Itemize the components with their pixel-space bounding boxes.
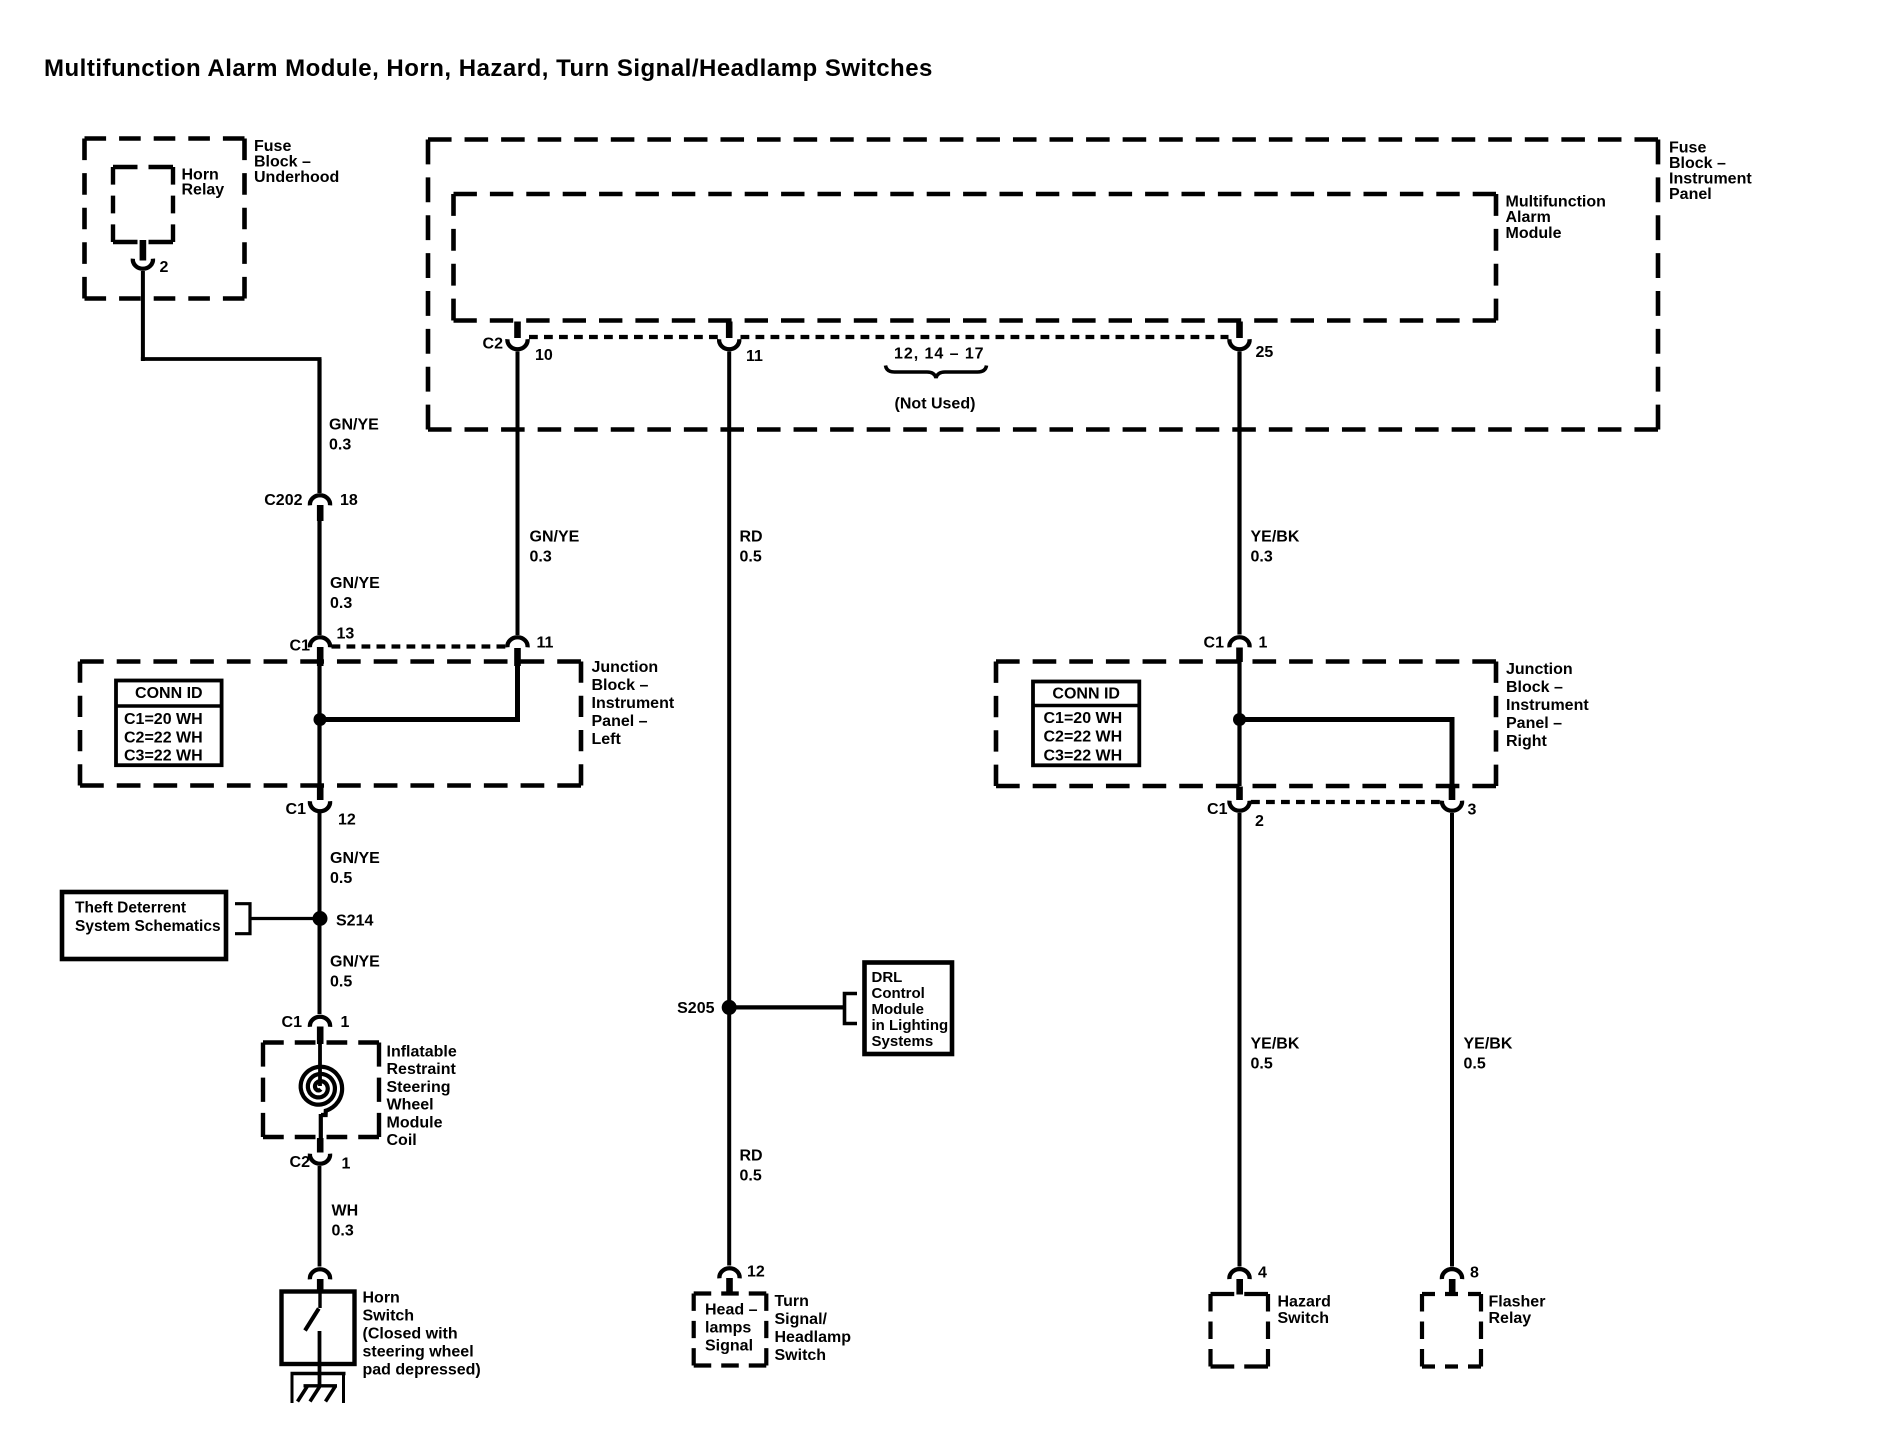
wire horn relay to C202	[141, 271, 145, 361]
svg-text:10: 10	[535, 347, 553, 364]
svg-text:Head –: Head –	[705, 1302, 758, 1319]
svg-text:0.3: 0.3	[1251, 549, 1273, 566]
horn switch blade	[318, 1292, 321, 1308]
svg-text:WH: WH	[332, 1203, 359, 1220]
CONN ID table left	[116, 681, 222, 766]
svg-text:8: 8	[1470, 1265, 1479, 1282]
svg-text:Module: Module	[387, 1114, 443, 1131]
svg-text:C1=20 WH: C1=20 WH	[124, 711, 203, 728]
junction block - instrument panel - left box	[80, 659, 581, 664]
wire C2-1 to horn switch, label WH 0.3	[318, 1166, 322, 1267]
svg-text:Module: Module	[872, 1001, 925, 1018]
svg-text:Horn: Horn	[363, 1290, 400, 1307]
coil spiral	[301, 1067, 342, 1115]
svg-text:C1: C1	[1204, 635, 1225, 652]
svg-text:11: 11	[746, 348, 763, 365]
svg-text:RD: RD	[740, 529, 763, 546]
svg-text:GN/YE: GN/YE	[330, 575, 380, 592]
wire C1-2 down to hazard switch, label YE/BK 0.5	[1238, 813, 1242, 1267]
svg-text:Control: Control	[872, 985, 925, 1002]
svg-text:0.5: 0.5	[740, 549, 762, 566]
svg-text:Systems: Systems	[872, 1033, 934, 1050]
wire module 11 down to S205, label RD 0.5	[727, 352, 731, 1015]
dotted link C1-2 to connector 3	[1251, 800, 1441, 804]
horn switch connector	[310, 1269, 330, 1279]
svg-text:GN/YE: GN/YE	[330, 850, 380, 867]
svg-text:C1: C1	[282, 1014, 303, 1031]
svg-text:Instrument: Instrument	[1669, 171, 1752, 188]
svg-text:0.5: 0.5	[1251, 1056, 1273, 1073]
svg-text:Multifunction Alarm Module, Ho: Multifunction Alarm Module, Horn, Hazard…	[44, 55, 933, 82]
wire 3 down to flasher relay, label YE/BK 0.5	[1450, 813, 1454, 1267]
svg-text:Module: Module	[1506, 225, 1562, 242]
svg-text:Steering: Steering	[387, 1079, 451, 1096]
svg-text:Flasher: Flasher	[1489, 1294, 1546, 1311]
svg-text:Turn: Turn	[775, 1293, 809, 1310]
svg-text:Multifunction: Multifunction	[1506, 194, 1606, 211]
flasher relay box	[1422, 1292, 1481, 1296]
svg-text:YE/BK: YE/BK	[1251, 529, 1300, 546]
svg-text:13: 13	[337, 626, 355, 643]
svg-text:Theft Deterrent: Theft Deterrent	[75, 900, 186, 917]
module connector pin 11	[726, 322, 733, 339]
dotted link C1-13 to junction connector 11	[332, 644, 507, 648]
svg-text:Headlamp: Headlamp	[775, 1329, 852, 1346]
svg-text:Right: Right	[1506, 733, 1548, 750]
svg-text:Alarm: Alarm	[1506, 209, 1551, 226]
head-lamps signal box	[694, 1291, 767, 1295]
svg-text:Signal: Signal	[705, 1338, 753, 1355]
svg-text:S205: S205	[677, 1000, 714, 1017]
svg-text:C202: C202	[264, 492, 302, 509]
svg-text:1: 1	[342, 1156, 351, 1173]
connector C2 pin 1	[317, 1138, 324, 1153]
svg-text:System Schematics: System Schematics	[75, 918, 221, 935]
connector C1 pin 2	[1236, 787, 1243, 801]
theft deterrent reference box	[62, 892, 226, 959]
svg-text:lamps: lamps	[705, 1320, 751, 1337]
svg-text:Block –: Block –	[1506, 679, 1563, 696]
svg-text:CONN ID: CONN ID	[1052, 686, 1120, 703]
svg-text:0.3: 0.3	[332, 1223, 354, 1240]
hazard switch box	[1211, 1292, 1269, 1296]
wires inside left junction block	[317, 666, 321, 786]
svg-text:Panel –: Panel –	[1506, 715, 1562, 732]
svg-text:Hazard: Hazard	[1278, 1294, 1331, 1311]
svg-text:Relay: Relay	[1489, 1310, 1532, 1327]
svg-text:Block –: Block –	[592, 677, 649, 694]
svg-text:C3=22 WH: C3=22 WH	[124, 748, 203, 765]
DRL control module box	[865, 963, 953, 1055]
hazard switch connector 4	[1229, 1269, 1249, 1279]
svg-text:YE/BK: YE/BK	[1464, 1036, 1513, 1053]
wire S205 to DRL bracket	[736, 1005, 845, 1009]
svg-text:(Closed with: (Closed with	[363, 1326, 458, 1343]
svg-text:DRL: DRL	[872, 969, 903, 986]
svg-text:Inflatable: Inflatable	[387, 1044, 457, 1061]
svg-text:18: 18	[340, 492, 358, 509]
module connector C2 pin 10	[514, 322, 521, 339]
svg-text:Restraint: Restraint	[387, 1061, 457, 1078]
svg-text:GN/YE: GN/YE	[530, 529, 580, 546]
svg-text:3: 3	[1468, 802, 1477, 819]
wires inside right junction block	[1237, 662, 1241, 786]
svg-text:1: 1	[1259, 635, 1268, 652]
turn signal switch connector 12	[719, 1268, 739, 1278]
svg-text:4: 4	[1258, 1265, 1267, 1282]
svg-text:11: 11	[537, 635, 554, 652]
svg-text:Junction: Junction	[1506, 661, 1573, 678]
svg-text:12: 12	[747, 1264, 765, 1281]
svg-text:in Lighting: in Lighting	[872, 1017, 949, 1034]
wire bracket to S214	[250, 917, 320, 920]
svg-text:C1: C1	[290, 638, 311, 655]
svg-text:GN/YE: GN/YE	[329, 417, 379, 434]
svg-text:CONN ID: CONN ID	[135, 685, 203, 702]
svg-text:S214: S214	[336, 913, 373, 930]
CONN ID table right	[1033, 682, 1139, 766]
svg-text:pad depressed): pad depressed)	[363, 1362, 481, 1379]
horn relay box	[113, 165, 173, 169]
connector C1 pin 1 (right junction block)	[1229, 637, 1249, 647]
svg-text:C2: C2	[290, 1154, 311, 1171]
svg-text:0.3: 0.3	[329, 437, 351, 454]
connector C1 pin 12	[317, 786, 324, 800]
svg-text:Junction: Junction	[592, 659, 659, 676]
svg-text:25: 25	[1256, 344, 1274, 361]
junction node dot in right junction block	[1233, 713, 1246, 726]
module connector pin 25	[1236, 322, 1243, 339]
wire C202 to C1-13	[317, 521, 321, 635]
connector C1 pin 1 (coil)	[310, 1017, 330, 1027]
svg-text:steering wheel: steering wheel	[363, 1344, 474, 1361]
wire module 25 down to C1-1, label YE/BK 0.3	[1237, 352, 1241, 635]
fuse block - underhood box	[85, 136, 245, 141]
multifunction alarm module box	[454, 192, 1497, 197]
connector 2 of horn relay	[140, 240, 147, 261]
svg-text:C2=22 WH: C2=22 WH	[124, 729, 203, 746]
svg-text:YE/BK: YE/BK	[1251, 1036, 1300, 1053]
DRL bracket	[845, 994, 858, 1024]
fuse block - instrument panel box	[428, 137, 1658, 142]
dotted bus along module bottom	[529, 335, 718, 339]
bracket from theft deterrent box	[235, 904, 250, 934]
svg-text:Block –: Block –	[254, 154, 311, 171]
svg-text:12, 14 – 17: 12, 14 – 17	[894, 346, 985, 363]
svg-text:Left: Left	[592, 731, 622, 748]
svg-text:Block –: Block –	[1669, 155, 1726, 172]
connector C202 pin 18	[310, 495, 330, 505]
svg-text:GN/YE: GN/YE	[330, 954, 380, 971]
svg-text:2: 2	[1255, 813, 1264, 830]
svg-text:Switch: Switch	[775, 1347, 827, 1364]
svg-text:Panel: Panel	[1669, 186, 1712, 203]
inflatable restraint steering wheel module coil box	[263, 1040, 379, 1044]
horn switch box	[282, 1292, 355, 1365]
junction node dot in left junction block	[314, 713, 327, 726]
flasher relay connector 8	[1442, 1269, 1462, 1279]
svg-text:Underhood: Underhood	[254, 169, 339, 186]
svg-text:0.5: 0.5	[740, 1168, 762, 1185]
svg-text:0.3: 0.3	[330, 595, 352, 612]
svg-text:C2=22 WH: C2=22 WH	[1044, 729, 1123, 746]
svg-text:Relay: Relay	[182, 181, 225, 198]
svg-text:Fuse: Fuse	[1669, 140, 1706, 157]
svg-text:Instrument: Instrument	[1506, 697, 1589, 714]
svg-text:C1: C1	[1207, 801, 1228, 818]
svg-text:2: 2	[160, 259, 169, 276]
ground symbol	[291, 1372, 346, 1375]
svg-text:Wheel: Wheel	[387, 1097, 434, 1114]
svg-text:Instrument: Instrument	[592, 695, 675, 712]
wire module 10 down to junction 11, label GN/YE 0.3	[516, 352, 520, 636]
svg-text:0.5: 0.5	[330, 974, 352, 991]
svg-text:12: 12	[338, 812, 356, 829]
svg-text:(Not Used): (Not Used)	[895, 396, 976, 413]
junction connector 11 (left)	[507, 637, 527, 647]
svg-text:Fuse: Fuse	[254, 138, 291, 155]
svg-text:Switch: Switch	[363, 1308, 415, 1325]
svg-text:0.5: 0.5	[1464, 1056, 1486, 1073]
svg-text:Switch: Switch	[1278, 1310, 1330, 1327]
svg-text:C1: C1	[286, 801, 307, 818]
svg-text:0.3: 0.3	[530, 549, 552, 566]
svg-text:RD: RD	[740, 1148, 763, 1165]
splice S205	[722, 1000, 737, 1015]
svg-text:Panel –: Panel –	[592, 713, 648, 730]
connector pin 3	[1449, 787, 1456, 801]
junction block - instrument panel - right box	[996, 659, 1496, 664]
svg-text:C2: C2	[483, 336, 504, 353]
svg-text:C1=20 WH: C1=20 WH	[1044, 710, 1123, 727]
svg-text:C3=22 WH: C3=22 WH	[1044, 747, 1123, 764]
svg-text:Coil: Coil	[387, 1132, 417, 1149]
svg-text:Signal/: Signal/	[775, 1311, 828, 1328]
splice S214	[313, 911, 328, 926]
wire C1-12 to S214, label GN/YE 0.5	[318, 813, 322, 1014]
svg-text:0.5: 0.5	[330, 870, 352, 887]
svg-text:1: 1	[341, 1014, 350, 1031]
wire S205 down to connector 12, label RD 0.5	[727, 1012, 731, 1266]
